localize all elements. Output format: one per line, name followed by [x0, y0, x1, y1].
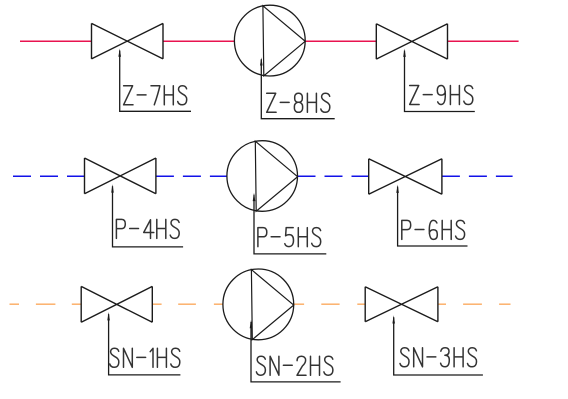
leader arrow Z-7HS [118, 49, 121, 57]
pump Z-8HS circle [234, 5, 305, 76]
leader arrow SN-1HS [107, 312, 110, 320]
leader arrow P-4HS [111, 184, 114, 192]
valve SN-3HS [365, 287, 438, 322]
pipe P line segment 3 [298, 175, 369, 177]
pump SN-2HS circle [223, 269, 294, 340]
leader line P-5HS [254, 195, 326, 254]
pump P-5HS circle [227, 141, 298, 212]
label text SN-1HS [110, 348, 180, 367]
valve P-4HS [85, 158, 156, 194]
pipe SN line segment 3 [294, 303, 366, 305]
leader arrow SN-2HS [250, 320, 253, 328]
pipe SN line segment 4 [438, 303, 511, 305]
pipe P line segment 2 [156, 175, 227, 177]
label text SN-2HS [256, 356, 333, 375]
leader line P-6HS [398, 187, 468, 246]
valve SN-1HS [81, 286, 152, 322]
pump SN-2HS impeller triangle [251, 270, 293, 340]
leader line Z-7HS [120, 51, 191, 112]
leader arrow Z-8HS [260, 57, 263, 65]
label text P-5HS [258, 228, 321, 247]
valve Z-9HS [376, 24, 447, 59]
label text P-4HS [116, 219, 179, 238]
pipe Z line segment 3 [305, 40, 376, 42]
pipe Z line segment 2 [163, 40, 234, 42]
label text P-6HS [402, 220, 465, 239]
pipe Z line segment 4 [448, 40, 519, 42]
pump Z-8HS impeller triangle [263, 6, 305, 76]
pump P-5HS impeller triangle [255, 141, 297, 211]
label text Z-8HS [267, 93, 330, 112]
pipe P line segment 4 [442, 175, 513, 177]
valve Z-7HS [92, 23, 164, 59]
leader arrow P-6HS [396, 185, 399, 193]
leader line SN-3HS [394, 317, 483, 375]
pipe SN line segment 2 [152, 303, 223, 305]
label text Z-7HS [124, 86, 187, 105]
leader line P-4HS [113, 186, 184, 247]
pipe SN line segment 1 [10, 303, 82, 305]
leader line SN-1HS [109, 314, 181, 375]
valve P-6HS [369, 159, 442, 195]
pipe Z line segment 1 [20, 40, 92, 42]
leader line SN-2HS [251, 322, 341, 382]
leader arrow Z-9HS [403, 49, 406, 57]
leader arrow P-5HS [253, 193, 256, 201]
leader arrow SN-3HS [392, 315, 395, 323]
leader line Z-8HS [261, 59, 334, 118]
pipe P line segment 1 [13, 175, 85, 177]
label text SN-3HS [400, 348, 477, 367]
label text Z-9HS [410, 86, 473, 105]
leader line Z-9HS [405, 51, 475, 112]
